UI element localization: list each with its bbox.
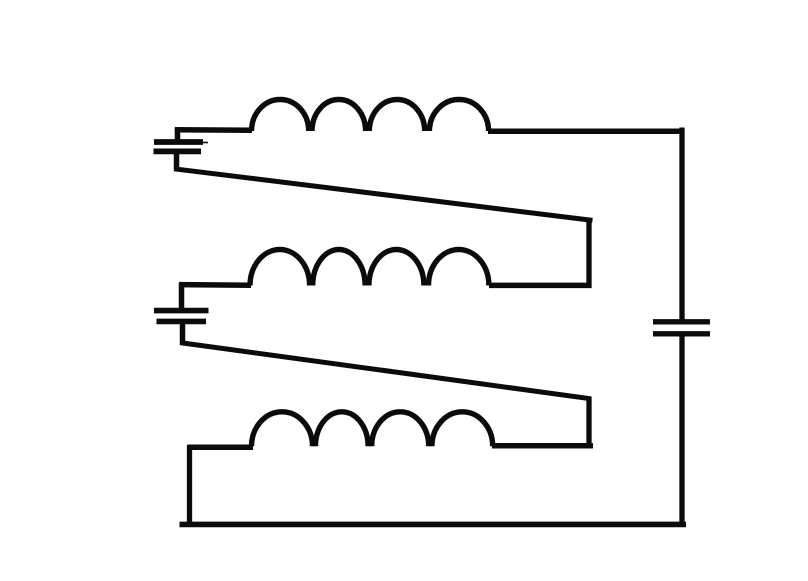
inductor L2 (250, 249, 489, 285)
wire C2 top stub (179, 283, 185, 311)
wire diagonal 1 (174, 169, 593, 221)
wire C2 bottom stub (180, 322, 186, 344)
wire L2 left horizontal (179, 282, 251, 288)
wire right vertical lower (679, 334, 684, 525)
wire bottom horizontal (180, 522, 687, 528)
capacitor C3 (653, 322, 710, 334)
wire L3 left horizontal (188, 445, 254, 451)
wire L1 to top-right corner (488, 128, 684, 134)
wire zigzag2 vertical at x=589 (586, 397, 591, 449)
wire left vertical bottom (187, 445, 192, 523)
wire zigzag1 vertical at x=589 (586, 218, 591, 288)
wire to L2 right (489, 283, 592, 289)
wire to L3 right (492, 443, 591, 449)
wire diagonal 2 (180, 343, 591, 399)
inductor L1 (252, 99, 489, 131)
capacitor C2 (154, 311, 209, 322)
wire C1 bottom stub (174, 151, 180, 169)
wire zigzag2 stub right (589, 443, 593, 448)
wire C1 top stub (175, 128, 181, 142)
wire top-left horizontal to L1 (175, 127, 252, 133)
inductor L3 (252, 412, 493, 447)
capacitor C1 (154, 142, 209, 151)
wire right vertical upper (679, 128, 684, 322)
